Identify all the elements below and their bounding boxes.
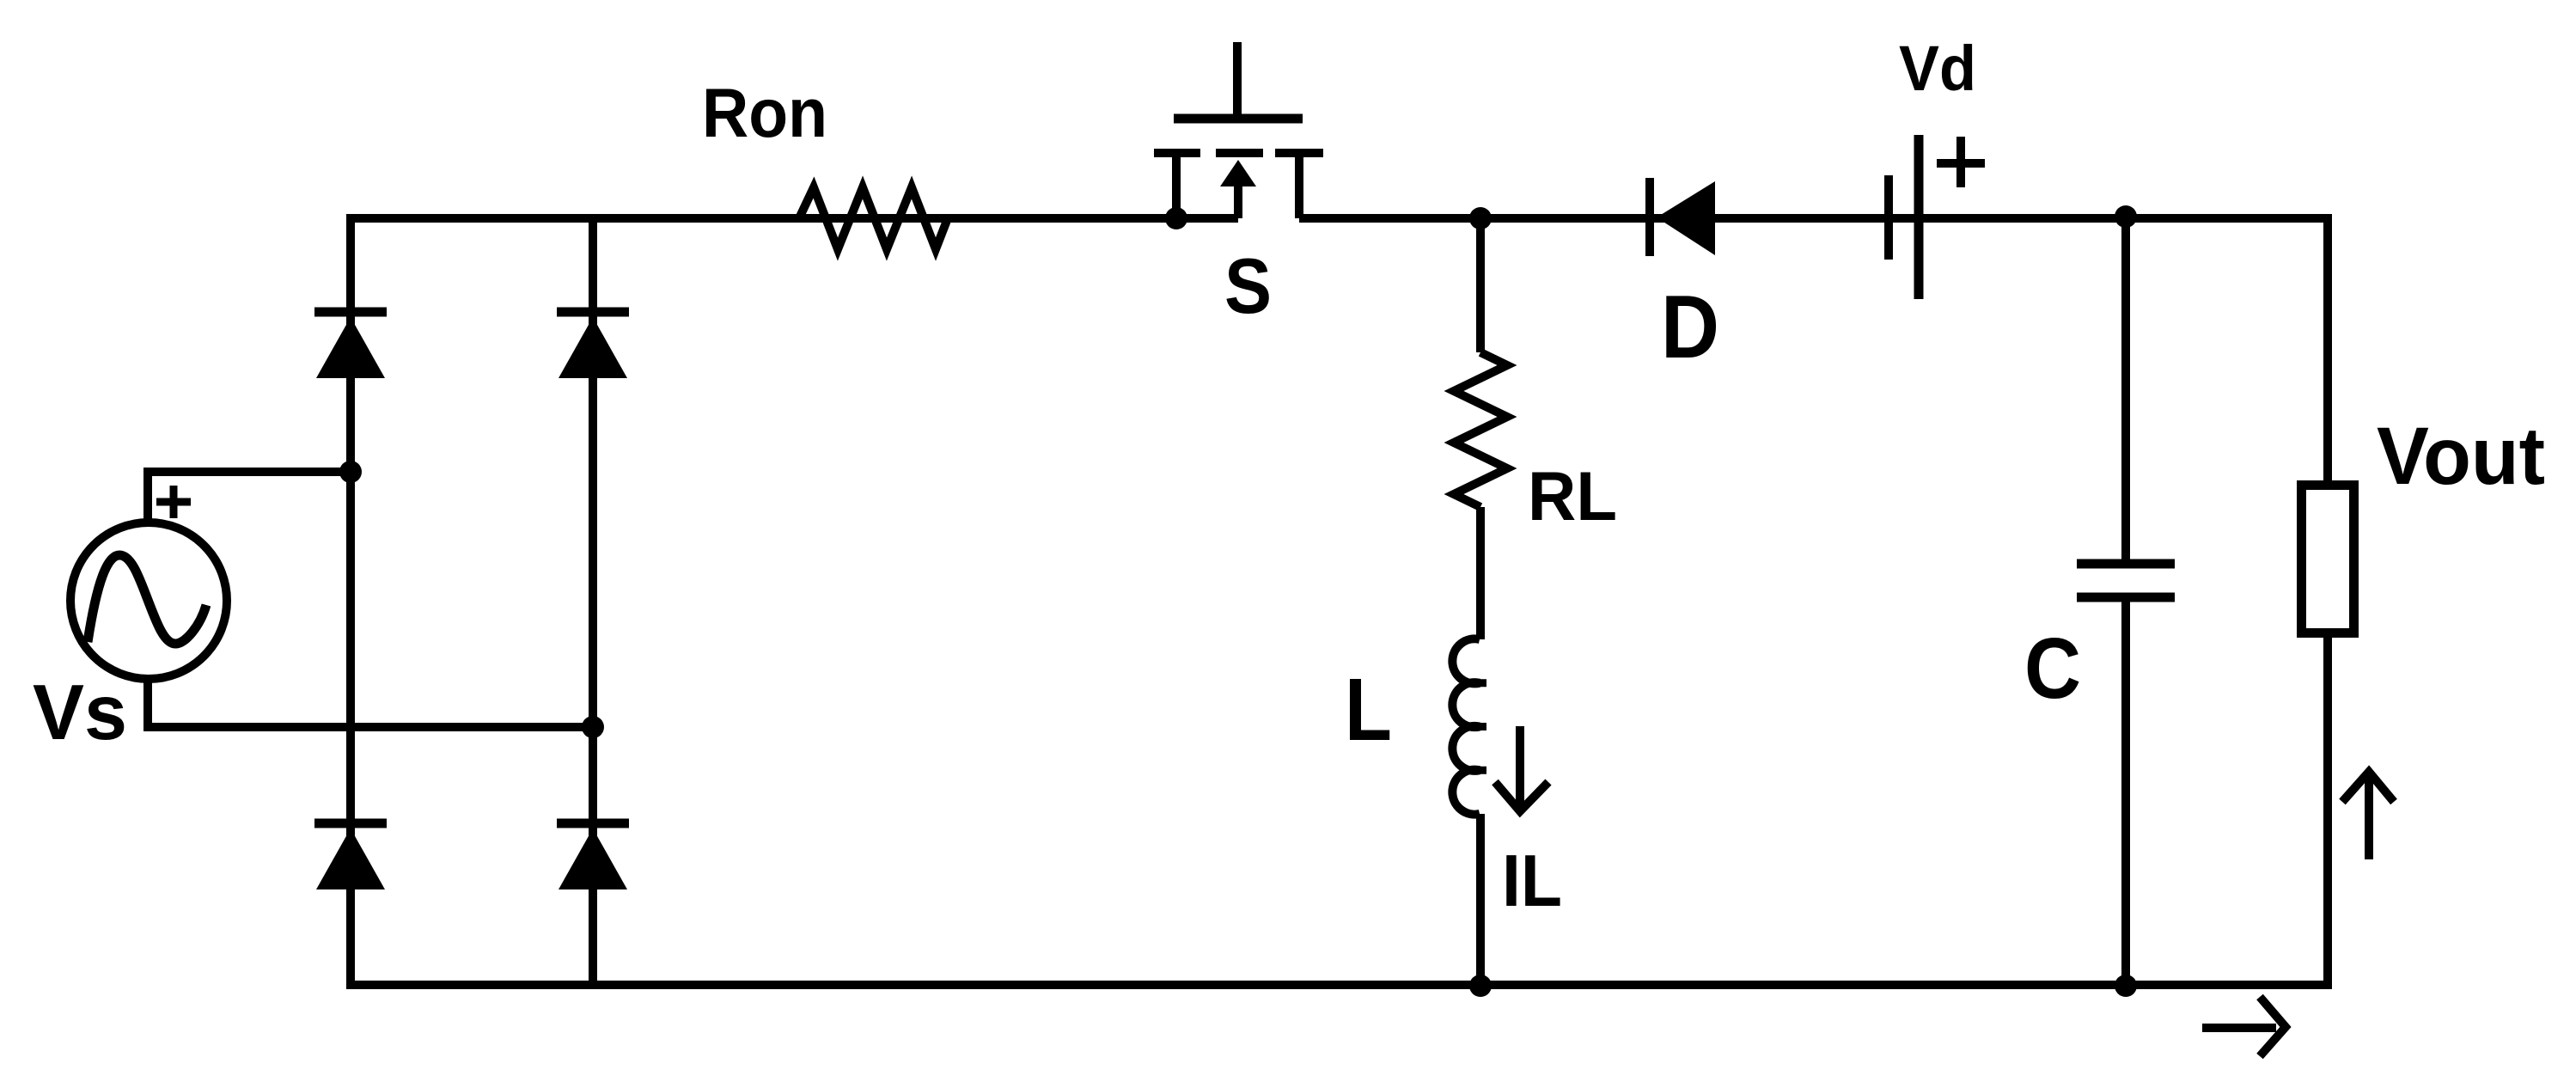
node dot Vs plus on left leg — [339, 461, 362, 483]
svg-text:Vs: Vs — [33, 669, 127, 756]
AC source sine wave — [88, 555, 206, 644]
wire Vs minus to bridge right leg — [143, 723, 593, 731]
plus sign at Vs — [156, 486, 191, 518]
wire Vs minus terminal stub — [143, 679, 152, 727]
wire Vs plus terminal stub — [143, 472, 152, 523]
IL arrow shaft — [1516, 726, 1524, 808]
wire Vout branch upper — [2323, 214, 2332, 480]
wire capacitor branch upper — [2121, 217, 2130, 559]
plus sign at Vd — [1937, 137, 1985, 187]
output current up arrow shaft — [2365, 778, 2373, 859]
svg-text:S: S — [1224, 243, 1272, 330]
svg-text:Vout: Vout — [2377, 411, 2545, 502]
node dot MOSFET source junction — [1165, 207, 1187, 229]
output current right arrow head — [2260, 997, 2286, 1056]
wire Vout branch lower — [2323, 633, 2332, 985]
battery Vd negative plate — [1884, 175, 1893, 260]
battery Vd positive plate — [1914, 135, 1924, 299]
svg-text:Ron: Ron — [702, 75, 827, 152]
output current up arrow head — [2342, 772, 2394, 802]
output current right arrow shaft — [2202, 1024, 2276, 1032]
node dot RL branch top — [1469, 207, 1492, 229]
MOSFET S gate bar — [1174, 114, 1303, 124]
diode bridge upper-left — [314, 312, 387, 378]
inductor L coil — [1452, 639, 1480, 814]
node dot Vs minus on right leg — [582, 716, 604, 738]
node dot capacitor branch top — [2115, 205, 2137, 228]
svg-text:Vd: Vd — [1899, 33, 1976, 104]
load resistor Vout rectangle — [2302, 486, 2354, 633]
wire top rail left (bridge top to MOSFET source arrow) — [346, 214, 1238, 223]
wire top rail right (MOSFET drain to Vout corner) — [1299, 214, 2332, 223]
diode bridge lower-left — [314, 823, 387, 889]
diode bridge upper-right — [557, 312, 629, 378]
svg-text:IL: IL — [1502, 840, 1562, 922]
wire bottom rail — [346, 981, 2332, 989]
diode D triangle — [1657, 181, 1715, 255]
svg-text:RL: RL — [1528, 458, 1617, 535]
IL arrow head — [1495, 782, 1548, 811]
MOSFET S body arrow shaft — [1234, 185, 1242, 218]
node dot capacitor branch bottom — [2115, 975, 2137, 997]
MOSFET S channel segments — [1154, 149, 1323, 157]
wire RL branch upper — [1476, 218, 1485, 352]
svg-text:D: D — [1661, 278, 1719, 377]
MOSFET S source vertical — [1172, 157, 1181, 218]
wire L to bottom rail — [1476, 814, 1485, 985]
diode D cathode bar — [1645, 178, 1654, 256]
wire bridge left leg — [346, 214, 355, 985]
svg-text:C: C — [2024, 620, 2081, 717]
inductor L coil cusp nubs — [1463, 683, 1486, 771]
MOSFET S body arrow head — [1220, 160, 1256, 186]
resistor RL zigzag — [1454, 352, 1507, 507]
AC source Vs circle — [70, 523, 227, 679]
capacitor C bottom plate — [2077, 593, 2175, 602]
resistor Ron zigzag — [799, 187, 948, 249]
wire capacitor branch lower — [2121, 602, 2130, 985]
wire bridge right leg — [589, 214, 597, 985]
svg-text:L: L — [1345, 660, 1392, 759]
wire RL to L — [1476, 507, 1485, 639]
node dot L branch bottom — [1469, 975, 1492, 997]
capacitor C top plate — [2077, 559, 2175, 569]
MOSFET S drain vertical — [1295, 157, 1303, 218]
wire Vs plus to bridge left leg — [143, 468, 351, 476]
MOSFET S gate terminal — [1233, 42, 1242, 119]
diode bridge lower-right — [557, 823, 629, 889]
